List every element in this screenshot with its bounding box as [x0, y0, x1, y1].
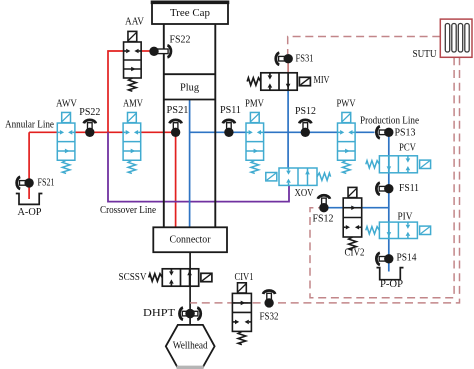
- valve CIV1: [232, 272, 253, 345]
- svg-text:AMV: AMV: [123, 99, 143, 110]
- wire red AAV branch corner: [108, 51, 123, 132]
- wire red vertical inside tree from PS21 to connector: [175, 132, 177, 227]
- wire annular line red horizontal: [29, 131, 57, 133]
- wire blue MIV vertical: [287, 90, 289, 168]
- svg-text:FS32: FS32: [260, 311, 279, 322]
- svg-text:Production Line: Production Line: [360, 116, 419, 127]
- sensor FS32: [260, 290, 279, 322]
- valve AMV: [123, 99, 143, 174]
- SUTU box: [413, 19, 473, 60]
- valve PCV: [366, 143, 431, 173]
- svg-text:P-OP: P-OP: [380, 279, 403, 290]
- sensor FS31: [276, 53, 314, 65]
- tree body left wall: [163, 24, 165, 227]
- svg-text:DHPT: DHPT: [143, 308, 176, 319]
- svg-text:PIV: PIV: [398, 211, 413, 222]
- wire annular line red AMV-to-PS21: [141, 131, 176, 133]
- wire dark red FS31 to MIV: [287, 59, 289, 73]
- sensor FS11: [376, 183, 419, 195]
- svg-text:SCSSV: SCSSV: [119, 272, 147, 283]
- sensor PS12: [295, 106, 316, 137]
- svg-text:PCV: PCV: [399, 143, 416, 154]
- wire black wellbore connector-to-wellhead: [189, 252, 191, 325]
- wire red vertical to FS21 and A-OP: [28, 132, 30, 199]
- tree body right wall: [214, 24, 216, 227]
- valve PMV: [245, 99, 264, 174]
- sensor FS21: [17, 177, 55, 189]
- svg-text:Crossover Line: Crossover Line: [100, 205, 156, 216]
- svg-text:AWV: AWV: [56, 99, 77, 110]
- wire blue right vertical PS13-to-P-OP: [388, 132, 390, 271]
- svg-text:FS12: FS12: [313, 213, 334, 224]
- valve MIV: [247, 73, 330, 90]
- box Plug: [164, 73, 216, 75]
- wellhead hexagon: [166, 325, 215, 367]
- valve AAV: [124, 17, 145, 92]
- P-OP bracket: [377, 268, 404, 290]
- valve SCSSV: [119, 269, 212, 286]
- svg-text:FS31: FS31: [296, 53, 314, 64]
- svg-text:FS11: FS11: [399, 183, 419, 194]
- box Tree Cap: [152, 2, 228, 25]
- wire blue FS12-to-CIV2-to-PIV branch: [328, 207, 389, 209]
- dashed line SUTU outer vertical to DHPT: [190, 57, 459, 303]
- svg-text:PS21: PS21: [167, 105, 189, 116]
- wire blue production horizontal tree-to-PMV: [190, 131, 246, 133]
- box Connector: [153, 227, 227, 252]
- svg-text:A-OP: A-OP: [18, 207, 42, 218]
- sensor FS22: [149, 35, 190, 58]
- wire purple crossover line: [108, 132, 289, 201]
- svg-text:PS11: PS11: [220, 105, 241, 116]
- svg-text:SUTU: SUTU: [413, 49, 437, 60]
- dashed line SUTU to FS31: [288, 37, 441, 55]
- valve PWV: [337, 99, 356, 174]
- svg-text:FS22: FS22: [170, 35, 191, 46]
- svg-text:PS22: PS22: [79, 107, 100, 118]
- svg-text:FS21: FS21: [38, 178, 55, 189]
- svg-text:XOV: XOV: [295, 188, 314, 199]
- wire red AAV to FS22: [141, 50, 154, 52]
- valve AWV: [56, 99, 77, 174]
- svg-text:MIV: MIV: [314, 75, 330, 86]
- svg-text:CIV2: CIV2: [345, 248, 365, 259]
- sensor PS14: [376, 253, 417, 265]
- svg-text:PS14: PS14: [397, 253, 418, 264]
- sensor PS21: [167, 105, 189, 137]
- valve XOV: [266, 168, 331, 199]
- wire annular line red AWV-to-AMV: [75, 131, 123, 133]
- svg-text:PS12: PS12: [295, 106, 316, 117]
- sensor FS12: [313, 195, 334, 224]
- svg-text:CIV1: CIV1: [235, 272, 254, 283]
- dashed line SUTU inner vertical to FS12: [310, 57, 454, 297]
- wire blue production horizontal PMV-to-PWV: [264, 131, 338, 133]
- svg-text:Annular Line: Annular Line: [5, 120, 54, 131]
- svg-text:PS13: PS13: [395, 127, 416, 138]
- svg-text:PWV: PWV: [337, 99, 356, 110]
- svg-text:PMV: PMV: [245, 99, 264, 110]
- sensor PS13: [376, 126, 415, 138]
- valve CIV2: [343, 187, 364, 258]
- svg-text:AAV: AAV: [125, 17, 144, 28]
- svg-text:Connector: Connector: [170, 235, 211, 246]
- A-OP bracket: [16, 194, 43, 218]
- wire blue vertical inside tree from plug to connector: [189, 100, 191, 228]
- sensor PS11: [220, 105, 241, 137]
- sensor DHPT: [143, 308, 201, 320]
- wire blue production horizontal PWV-to-PS13: [355, 131, 375, 133]
- sensor PS22: [79, 107, 100, 137]
- svg-text:Plug: Plug: [180, 83, 200, 94]
- svg-text:Wellhead: Wellhead: [173, 341, 209, 352]
- svg-text:Tree Cap: Tree Cap: [170, 8, 210, 19]
- valve PIV: [366, 211, 431, 238]
